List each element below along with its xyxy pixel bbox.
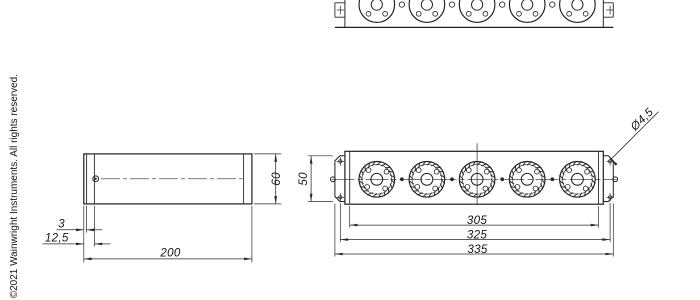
top view right end plate line <box>602 0 604 27</box>
junction dot 4 <box>550 177 554 181</box>
dimension 325 <box>340 239 610 241</box>
svg-text:325: 325 <box>467 229 487 242</box>
side view right plate line <box>243 154 245 204</box>
connector J4 flange outer ring <box>509 162 545 198</box>
dimension 325 extension lines <box>339 203 341 242</box>
top view connector 2 flange <box>409 0 445 22</box>
connector J1 flange inner ring <box>362 164 392 194</box>
top view body lower edge <box>335 26 613 28</box>
dimension 200 <box>84 258 252 260</box>
connector J5 flange outer ring <box>560 162 596 198</box>
connector J5 screw holes <box>565 168 589 191</box>
connector J4 screw holes <box>515 168 539 191</box>
connector J5 flange inner ring <box>563 164 593 194</box>
dimension 12,5 extension line <box>93 206 95 247</box>
svg-text:50: 50 <box>297 172 310 186</box>
svg-text:12,5: 12,5 <box>45 232 69 245</box>
dimension 335 <box>335 253 613 255</box>
dimension 50 extension lines <box>308 155 333 157</box>
connector J1 center conductor <box>371 173 383 185</box>
ear hole at 340,197 <box>339 196 342 199</box>
svg-text:335: 335 <box>467 243 487 256</box>
top view connector 1 flange <box>359 0 395 22</box>
svg-text:200: 200 <box>159 247 180 260</box>
connector J2 center conductor <box>421 173 433 185</box>
top view small hole 4 <box>550 2 555 7</box>
svg-text:©2021 Wainwright Instruments.: ©2021 Wainwright Instruments. All rights… <box>9 74 20 298</box>
connector J3 center conductor <box>471 173 483 185</box>
dimension 60 extension lines <box>254 153 281 155</box>
top view connector 3 flange <box>459 0 495 22</box>
ear hole at 610,197 <box>608 196 611 199</box>
top view small hole 2 <box>449 2 454 7</box>
dimension 12,5 <box>43 243 84 245</box>
dimension 3 <box>57 229 84 231</box>
front view body outline <box>345 151 603 204</box>
hole diameter callout leader <box>612 112 659 159</box>
dimension 335 extension lines <box>334 204 336 257</box>
connector J3 knurl ticks <box>459 161 496 198</box>
connector J4 center conductor <box>521 173 533 185</box>
front view right end plate line <box>598 151 600 204</box>
dimension 3 extension lines <box>83 206 85 263</box>
junction dot 2 <box>450 177 454 181</box>
connector J1 screw holes <box>365 168 389 191</box>
dimension 200 extension line right <box>251 206 253 263</box>
top view connector 5 flange <box>560 0 596 22</box>
junction dot 1 <box>400 177 404 181</box>
connector J2 flange outer ring <box>409 162 445 198</box>
connector J2 screw holes <box>415 168 439 191</box>
top view small hole 3 <box>500 2 505 7</box>
side view left plate line 3mm <box>86 154 88 204</box>
connector J5 knurl ticks <box>559 161 596 198</box>
dimension 305 <box>350 224 599 226</box>
dimension 50 <box>310 156 312 202</box>
connector J4 flange inner ring <box>512 164 542 194</box>
junction dot 3 <box>500 177 504 181</box>
connector J5 center conductor <box>572 173 584 185</box>
connector J4 knurl ticks <box>509 161 546 198</box>
side view body outline <box>84 154 252 204</box>
top view connector 4 flange <box>509 0 545 22</box>
side view connector circle <box>93 176 99 182</box>
right end connector stub <box>613 177 618 182</box>
front view vertical centerline <box>476 143 478 205</box>
front view left end plate line <box>349 151 351 204</box>
front view left mounting ear <box>335 156 345 202</box>
connector J3 screw holes <box>465 168 489 191</box>
side view left plate line 12.5mm <box>93 154 95 204</box>
connector J3 flange outer ring <box>459 162 495 198</box>
top view right ear tab <box>603 2 613 4</box>
connector J1 flange outer ring <box>359 162 395 198</box>
left end connector stub <box>331 177 336 182</box>
front view horizontal centerline <box>332 178 617 180</box>
svg-text:305: 305 <box>467 214 487 227</box>
ear hole at 610,161 <box>608 160 611 163</box>
top view left end plate line <box>344 0 346 27</box>
svg-text:60: 60 <box>270 172 283 186</box>
ear hole at 340,161 <box>339 160 342 163</box>
side view centerline <box>101 178 243 180</box>
connector J1 knurl ticks <box>359 161 396 198</box>
dimension 60 <box>275 154 277 204</box>
svg-text:3: 3 <box>58 218 65 231</box>
dimension 305 extension lines <box>349 206 351 228</box>
connector J2 knurl ticks <box>409 161 446 198</box>
connector J2 flange inner ring <box>412 164 442 194</box>
top view left ear tab <box>335 2 345 4</box>
connector J3 flange inner ring <box>462 164 492 194</box>
front view right mounting ear <box>603 156 613 202</box>
top view small hole 1 <box>399 2 404 7</box>
